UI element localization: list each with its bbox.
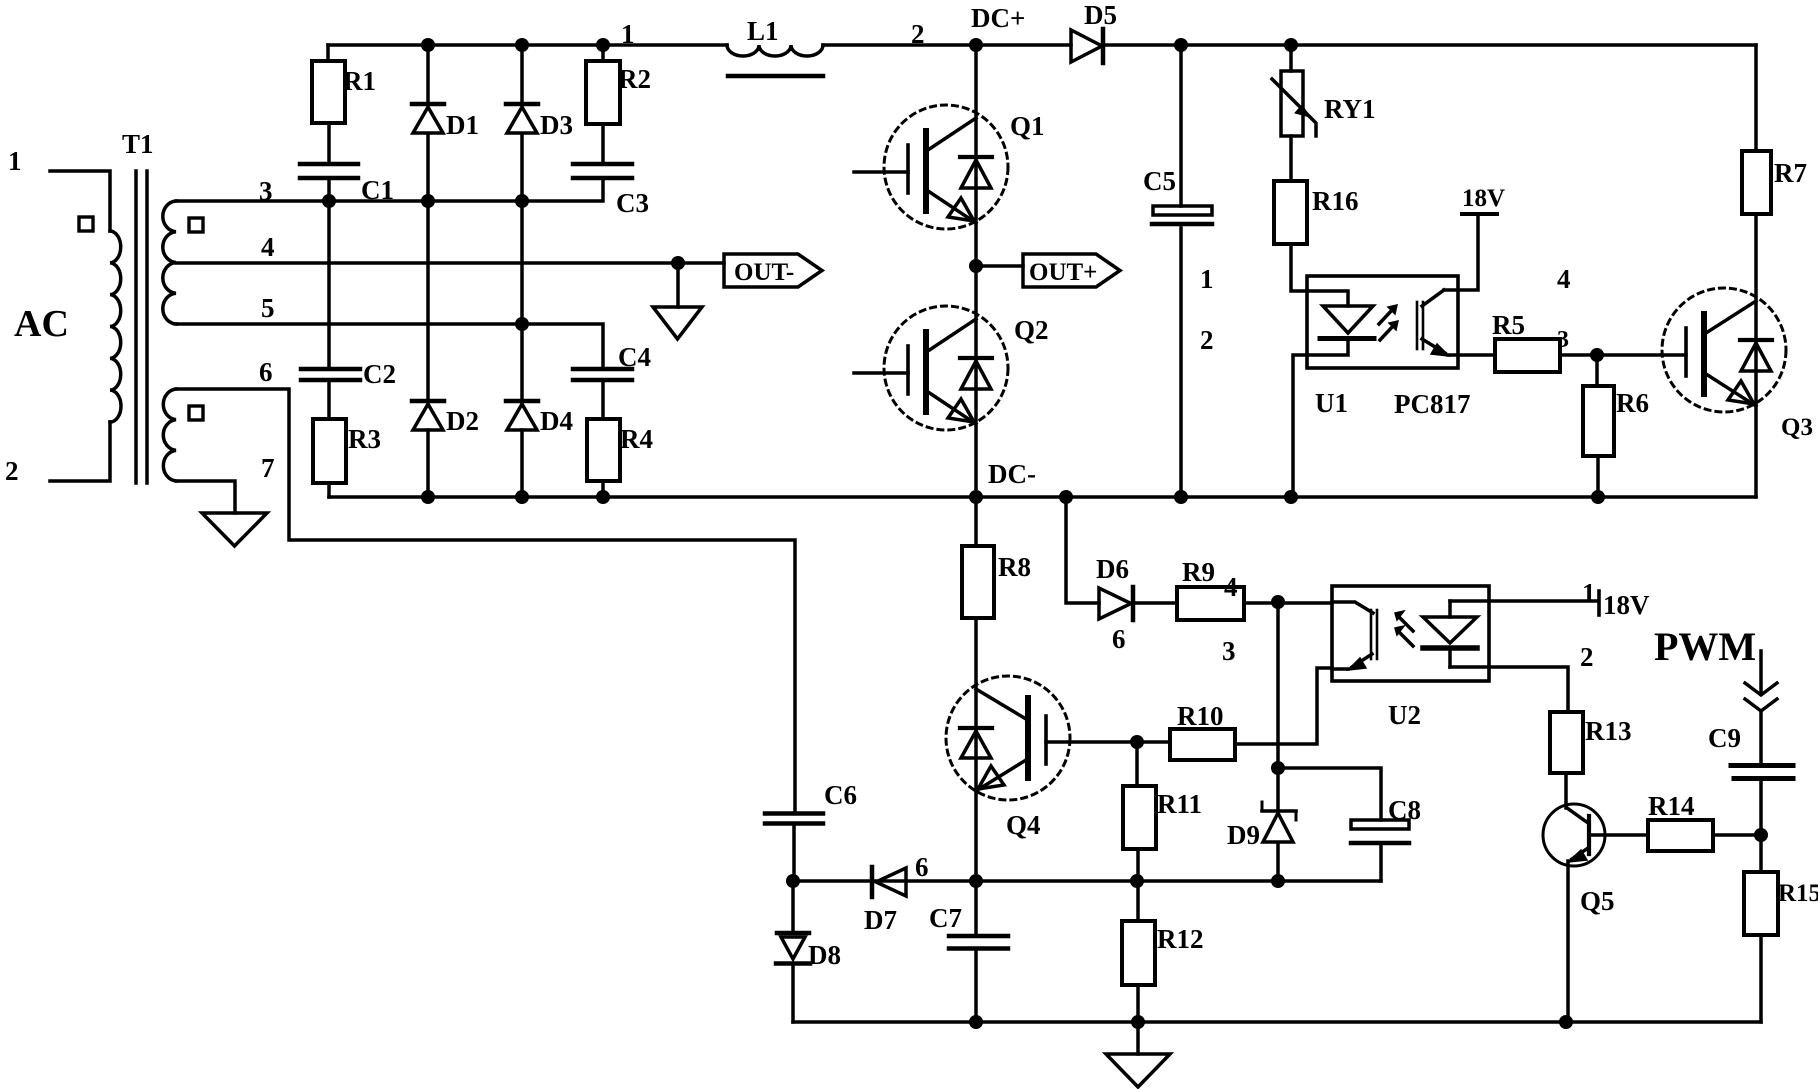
resistor R13 [1550,712,1583,773]
optocoupler U1 phototransistor [1417,290,1449,356]
svg-text:4: 4 [1557,264,1571,294]
resistor R7 [1742,151,1771,214]
wire R11 to rail [1137,742,1138,881]
svg-text:T1: T1 [122,129,154,159]
wire U2 LED cathode to R13 [1450,667,1568,712]
svg-text:2: 2 [911,19,925,49]
transistor Q3 (IGBT with diode) [1662,288,1786,412]
wire OUT- ground stub [676,263,680,307]
svg-text:3: 3 [1557,327,1569,353]
svg-text:R2: R2 [618,64,651,94]
svg-text:2: 2 [1580,642,1594,672]
junction dot OUT+ [969,259,983,273]
svg-text:1: 1 [1200,264,1214,294]
diode D7 [872,867,906,897]
wire R7 column [1754,45,1758,497]
svg-text:C4: C4 [618,342,651,372]
transformer T1 secondary winding pins 3-4-5 [163,201,176,324]
svg-text:Q1: Q1 [1010,111,1045,141]
power terminal 18V (right of U2) [1597,591,1601,615]
wire D3-D4 leg [520,45,524,497]
capacitor C8 [1351,820,1409,843]
svg-text:PC817: PC817 [1394,389,1471,419]
transistor Q2 (IGBT with diode) [854,306,1008,430]
wire R1 branch [328,45,329,201]
wire D8 branch [791,881,795,1022]
svg-text:D4: D4 [540,406,573,436]
svg-text:OUT-: OUT- [734,259,794,286]
svg-text:R13: R13 [1585,716,1632,746]
wire R14 to node [1713,833,1761,837]
svg-text:L1: L1 [747,16,779,46]
wire bottom rail [793,1020,1761,1024]
wire U1 pin2 down to DC- [1293,341,1348,497]
resistor R8 [962,546,994,618]
diode D5 [1071,29,1103,63]
svg-text:C2: C2 [363,359,396,389]
svg-text:U1: U1 [1315,388,1348,418]
diode D2 [412,401,444,430]
capacitor C9 [1731,766,1793,779]
svg-text:R3: R3 [348,424,381,454]
resistor R11 [1123,786,1156,849]
wire D1-D2 leg [426,45,430,497]
junction dot node 4 row [671,256,685,270]
junction dots DC- rail [421,490,435,504]
wire node 3 row [176,178,603,201]
resistor R12 [1122,921,1155,985]
svg-text:D5: D5 [1084,0,1117,30]
wire R6 branch [1597,355,1598,497]
svg-text:R14: R14 [1648,791,1695,821]
wire pin7 to ground [176,481,235,513]
transformer T1 core [136,171,147,483]
svg-text:R9: R9 [1182,557,1215,587]
svg-text:R16: R16 [1312,186,1359,216]
wire node3 column through D9 [1276,602,1280,881]
svg-text:4: 4 [261,232,275,262]
wire C7 branch [974,881,978,1022]
junction dot R5-R6-Q3 node [1590,348,1604,362]
svg-text:R5: R5 [1492,310,1525,340]
capacitor C2 [301,369,360,380]
svg-text:7: 7 [261,453,275,483]
svg-text:R12: R12 [1157,924,1204,954]
svg-text:Q4: Q4 [1006,810,1041,840]
optocoupler U1 box [1307,276,1458,368]
resistor R14 [1648,820,1713,851]
svg-text:2: 2 [1200,325,1214,355]
polarity dot secondary lower [189,406,203,420]
wire node 5 row [176,324,603,369]
resistor R15 [1744,872,1778,935]
wire PWM arrow line [1759,651,1763,764]
svg-text:C5: C5 [1143,166,1176,196]
wire R8 branch [974,497,978,881]
junction dots mid rail [786,874,800,888]
resistor R5 [1495,339,1560,372]
capacitor C6 [765,814,823,824]
capacitor C7 [949,936,1008,949]
inductor L1 [727,45,823,76]
wire D6 branch from DC- [1066,497,1099,603]
optocoupler U2 box [1332,586,1489,681]
svg-text:C9: C9 [1708,723,1741,753]
svg-text:6: 6 [1112,624,1126,654]
wire U1 emitter to R5 [1448,353,1495,357]
optocoupler U2 light arrows [1395,611,1413,646]
wire Q5 base to R14 [1589,833,1648,837]
wire C5 column [1179,45,1183,497]
resistor R9 [1177,587,1244,620]
wire top rail right [823,43,1756,47]
junction dots node 3 row [322,194,336,208]
svg-text:RY1: RY1 [1324,94,1376,124]
optocoupler U2 LED [1423,601,1477,667]
polarity dot secondary upper [189,218,203,232]
svg-text:1: 1 [1582,578,1596,608]
svg-text:D7: D7 [864,905,897,935]
svg-text:DC+: DC+ [971,3,1025,33]
svg-text:1: 1 [8,146,22,176]
svg-text:Q5: Q5 [1580,886,1615,916]
svg-text:D2: D2 [446,406,479,436]
polarity dot primary [79,217,93,231]
wire Q1 Q2 column [974,45,978,497]
svg-text:R7: R7 [1774,158,1807,188]
wire C8 branch [1278,768,1381,881]
junction dots bottom rail [969,1015,983,1029]
svg-text:C6: C6 [824,780,857,810]
wire Q4 gate to R10 R11 node [1046,740,1170,744]
svg-text:C1: C1 [361,175,394,205]
svg-text:DC-: DC- [988,459,1036,489]
svg-text:R4: R4 [620,424,653,454]
diode D4 [506,401,538,430]
wire D6 to R9 [1134,601,1177,605]
svg-text:D9: D9 [1227,820,1260,850]
optocoupler U1 LED [1320,306,1374,339]
wire ground stub bottom [1136,1022,1140,1054]
svg-text:6: 6 [259,357,273,387]
wire R5 to Q3 gate [1560,353,1686,357]
junction dot node 5 row [515,317,529,331]
svg-text:18V: 18V [1603,590,1650,620]
capacitor C3 [573,164,632,178]
capacitor C4 [573,369,632,380]
transistor Q5 (BJT mirrored) [1543,804,1605,866]
svg-text:D1: D1 [446,110,479,140]
wire R10 to U2 emitter [1235,668,1332,744]
svg-text:Q2: Q2 [1014,315,1049,345]
svg-text:AC: AC [14,303,69,345]
port flag OUT- [724,254,822,287]
svg-text:PWM: PWM [1654,624,1756,669]
svg-text:2: 2 [5,456,19,486]
wire pin6 down-around to C6 [176,389,795,813]
junction dot R9-U2 node [1271,595,1285,609]
svg-text:6: 6 [915,852,929,882]
resistor R2 [586,61,620,124]
wire RY1-R16-U1 column [1291,45,1348,306]
svg-text:D8: D8 [808,940,841,970]
diode D1 [412,104,444,133]
wire top rail left [328,43,727,47]
ground symbol under OUT- node [653,307,702,339]
diode D6 [1099,587,1133,620]
thermistor RY1 [1272,71,1316,136]
svg-text:3: 3 [1222,636,1236,666]
svg-text:D3: D3 [540,110,573,140]
optocoupler U1 light arrows [1379,305,1398,340]
wire C9 to R15 [1759,781,1763,1022]
resistor R10 [1170,729,1235,760]
svg-text:R8: R8 [998,552,1031,582]
transformer T1 secondary winding pins 6-7 [163,389,176,481]
junction dot D9-C8 top node [1271,761,1285,775]
wire C6 to mid rail [792,825,796,881]
svg-text:U2: U2 [1388,700,1421,730]
junction dot R14-C9-R15 node [1754,828,1768,842]
svg-text:C3: C3 [616,188,649,218]
transformer T1 primary winding [50,171,121,481]
resistor R3 [313,419,346,483]
junction dot Q4 gate node [1130,735,1144,749]
resistor R1 [312,61,345,123]
wire R2-C3 branch [601,45,605,164]
capacitor C1 [300,164,358,178]
svg-text:R6: R6 [1616,388,1649,418]
resistor R4 [587,419,620,481]
port flag OUT+ [1023,254,1120,287]
wire OUT+ stub [976,264,1023,268]
wire DC- rail [329,495,1756,499]
resistor R6 [1583,386,1614,456]
transistor Q4 (IGBT with diode, mirrored) [946,676,1070,800]
junction dots top rail [421,38,435,52]
wire C2-R3 branch [327,201,331,497]
svg-text:OUT+: OUT+ [1029,259,1097,286]
wire U2 LED anode to 18V terminal [1450,599,1598,603]
svg-text:C8: C8 [1388,795,1421,825]
svg-text:C7: C7 [929,903,962,933]
ground symbol under T1 pin7 [202,513,267,546]
diode D8 [776,933,810,964]
wire C4-R4 branch [601,380,605,497]
resistor R16 [1274,181,1307,244]
diode D3 [506,104,538,133]
svg-text:18V: 18V [1462,185,1505,212]
svg-text:R1: R1 [343,66,376,96]
wire R12 branch [1136,881,1140,1022]
ground symbol bottom rail [1106,1054,1170,1087]
optocoupler U2 phototransistor [1332,602,1377,670]
PWM input arrow [1745,683,1777,711]
svg-text:R11: R11 [1157,789,1202,819]
svg-text:R10: R10 [1177,701,1224,731]
wire R9 to U2 pin3 [1244,601,1332,605]
svg-text:R15: R15 [1778,880,1818,907]
svg-text:4: 4 [1224,572,1238,602]
capacitor C5 [1152,206,1212,224]
wire R13 to Q5 collector [1564,773,1568,808]
wire 18V to U1 collector [1444,215,1478,290]
wire node 4 row [176,261,724,265]
svg-text:1: 1 [621,19,635,49]
wire mid rail (C6 D7 C7 R11 D9 C8) [793,879,1381,883]
svg-text:5: 5 [261,293,275,323]
svg-text:3: 3 [259,176,273,206]
svg-text:D6: D6 [1096,554,1129,584]
power terminal 18V (above U1) [1462,212,1497,216]
zener diode D9 [1262,802,1296,842]
wire Q5 emitter to bottom rail [1566,861,1570,1022]
svg-text:Q3: Q3 [1781,414,1813,441]
transistor Q1 (IGBT with diode) [854,105,1008,229]
